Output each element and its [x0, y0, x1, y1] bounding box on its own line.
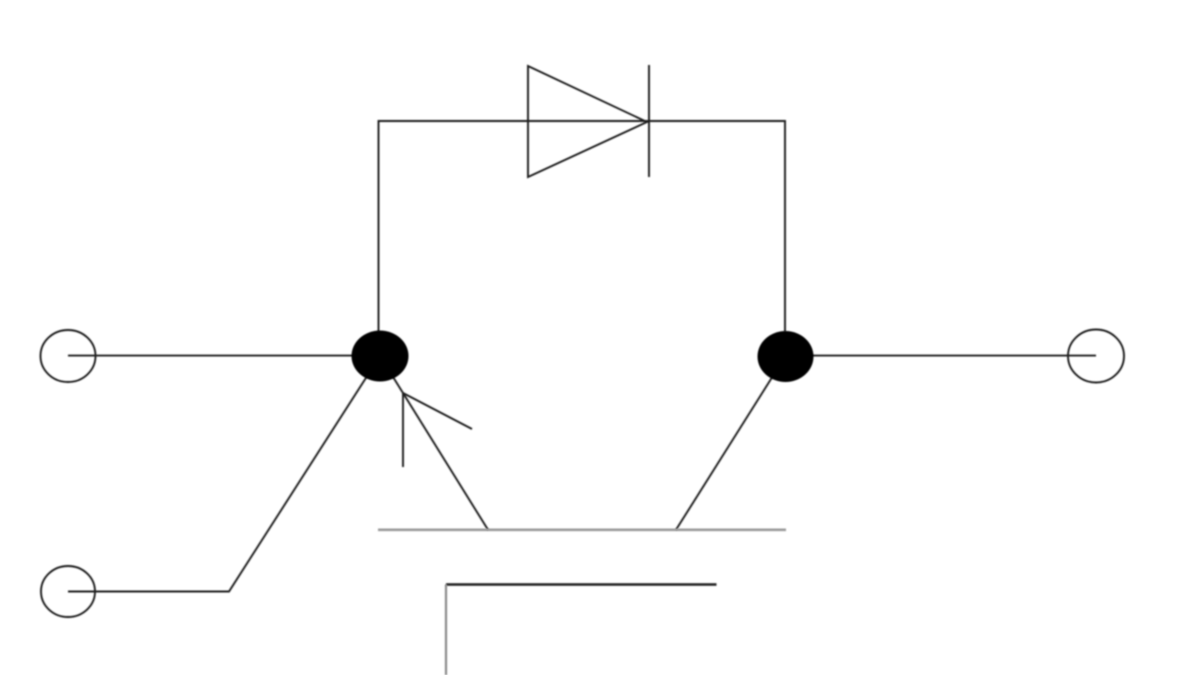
node B (right solder dot) [758, 331, 814, 382]
wire: left terminal to left node [68, 355, 380, 357]
wire: gate terminal horizontal then diagonal up to left node [68, 356, 380, 592]
wire: right node diagonal down to gate bar [676, 356, 786, 530]
arrow barb (diagonal) of emitter arrow [403, 393, 472, 429]
terminal T3 (bottom-left gate terminal circle) [41, 566, 95, 617]
gate bar (gray horizontal bar) [378, 528, 786, 531]
terminal T1 (left collector terminal circle) [41, 330, 96, 382]
wire: right node to right terminal [786, 355, 1097, 357]
arrow barb (vertical) of emitter arrow [402, 393, 404, 467]
diode D1 cathode bar [648, 65, 650, 177]
wire: left node diagonal down to gate bar (IGBT emitter shaft) [380, 356, 488, 530]
gray vertical lead going down from channel line [445, 585, 447, 675]
node A (left solder dot) [352, 331, 409, 382]
diode D1 triangle (anode) [528, 66, 647, 177]
black channel line under gate bar [446, 583, 717, 585]
terminal T2 (right emitter terminal circle) [1068, 330, 1124, 383]
wire: top loop from left node up, across, down to right node [379, 121, 786, 332]
